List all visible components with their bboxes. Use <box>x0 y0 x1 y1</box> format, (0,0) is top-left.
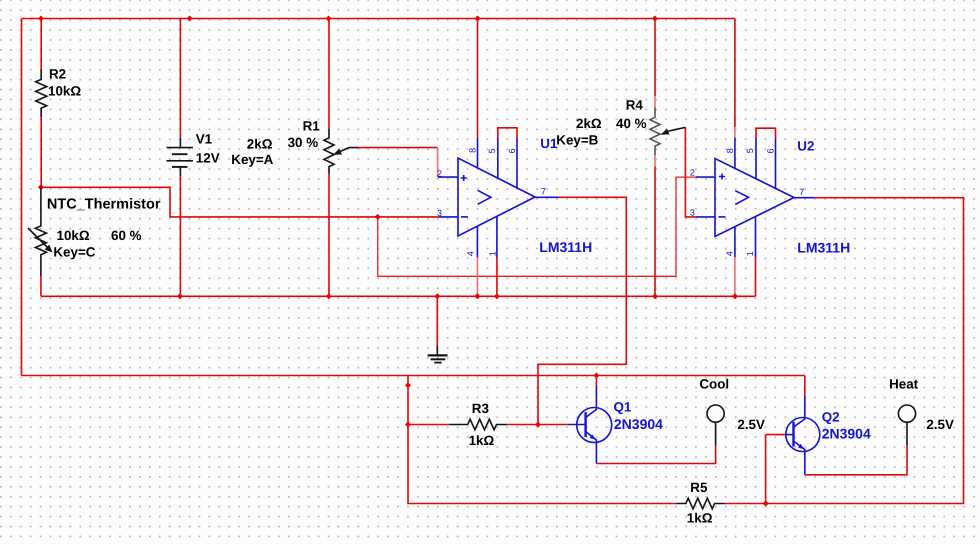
wire U2 output right rail down to R5 <box>725 198 964 504</box>
op-amp U1 comparator <box>438 138 558 258</box>
wire R4 bottom <box>654 167 656 297</box>
potentiometer R4 wiper arrow <box>667 127 685 131</box>
svg-text:5: 5 <box>745 148 755 153</box>
svg-text:LM311H: LM311H <box>539 239 592 255</box>
svg-text:R4: R4 <box>626 98 644 113</box>
wire thermistor bottom <box>40 276 42 296</box>
svg-text:10kΩ: 10kΩ <box>48 83 81 98</box>
wire U1 pin1 to bus <box>496 257 498 296</box>
op-amp U2 comparator <box>696 138 815 257</box>
svg-text:Q1: Q1 <box>614 400 632 415</box>
wire U1 pin4 to bus <box>476 257 478 296</box>
transistor Q2 <box>785 396 820 475</box>
pin stub R4 top <box>654 96 656 108</box>
junction left branch upper <box>405 382 411 388</box>
svg-text:10kΩ: 10kΩ <box>57 228 90 243</box>
svg-text:LM311H: LM311H <box>797 239 850 255</box>
svg-text:2N3904: 2N3904 <box>822 426 871 442</box>
junction node A branch <box>375 214 381 220</box>
svg-text:2kΩ: 2kΩ <box>576 116 602 131</box>
junction rail-R1 <box>326 16 332 22</box>
potentiometer R1 <box>324 128 334 173</box>
wire Q2 emitter to Heat probe <box>805 446 907 475</box>
thermistor RT NTC <box>35 188 46 277</box>
wire U2 pin5-6 bridge <box>756 128 776 138</box>
svg-text:60 %: 60 % <box>111 228 142 243</box>
svg-text:30 %: 30 % <box>288 135 319 150</box>
wire R4 wiper to U2 pin3 <box>685 127 695 217</box>
svg-text:Key=B: Key=B <box>556 133 598 148</box>
svg-text:6: 6 <box>507 148 517 153</box>
pin stub U2 pin8 <box>734 127 736 138</box>
wire R1 top <box>328 19 330 129</box>
junction rail-R4 <box>652 16 658 22</box>
wire Q2 base down to R5 <box>765 435 767 504</box>
svg-text:U1: U1 <box>540 136 558 151</box>
junction Q1 collector <box>593 373 599 379</box>
svg-text:Key=C: Key=C <box>53 245 95 260</box>
svg-text:R2: R2 <box>49 67 66 82</box>
wire ground stub <box>436 296 438 346</box>
wire Q2 collector stub <box>804 376 806 397</box>
wire R4 top <box>654 19 656 97</box>
svg-text:Heat: Heat <box>889 377 919 392</box>
svg-text:40 %: 40 % <box>616 116 647 131</box>
junction bus-U2pin4 <box>732 293 738 299</box>
svg-text:1kΩ: 1kΩ <box>469 433 495 448</box>
wire ground bus <box>41 295 756 297</box>
wire Q1 collector stub <box>595 376 597 387</box>
svg-text:2: 2 <box>690 168 695 178</box>
svg-text:2.5V: 2.5V <box>926 417 954 432</box>
wire R2 top <box>40 19 42 70</box>
svg-text:3: 3 <box>690 208 695 218</box>
wire R1 bottom <box>328 174 330 297</box>
svg-text:Key=A: Key=A <box>231 152 273 167</box>
probe Heat <box>898 405 915 446</box>
svg-text:4: 4 <box>466 251 476 256</box>
wire node A branch to U2 pin2 <box>378 177 696 276</box>
svg-text:4: 4 <box>724 251 734 256</box>
junction left branch R3 <box>405 422 411 428</box>
svg-text:U2: U2 <box>797 139 814 154</box>
svg-text:2kΩ: 2kΩ <box>247 136 273 151</box>
svg-text:Q2: Q2 <box>822 410 840 425</box>
junction rail-R2 <box>38 16 44 22</box>
wire Q2 base horizontal <box>766 434 785 436</box>
wire U1 output to Q1 base net <box>538 197 626 424</box>
wire R1 wiper to U1 pin2 <box>359 147 438 149</box>
junction bus-V1 <box>177 293 183 299</box>
wire mid horizontal rail <box>22 375 805 377</box>
junction bus-U1pin1 <box>494 293 500 299</box>
svg-text:2.5V: 2.5V <box>737 417 765 432</box>
svg-text:8: 8 <box>725 148 735 153</box>
junction rail-U1pin8 <box>475 16 481 22</box>
svg-text:7: 7 <box>541 187 546 197</box>
svg-text:5: 5 <box>487 148 497 153</box>
pin stub R4 bottom <box>654 155 656 166</box>
svg-text:1: 1 <box>745 251 755 256</box>
wire R3 left <box>408 424 449 426</box>
ground <box>428 346 448 363</box>
svg-text:8: 8 <box>467 148 477 153</box>
svg-text:Cool: Cool <box>699 377 729 392</box>
junction Q2base-R5 <box>763 501 769 507</box>
junction bus-R1 <box>326 293 332 299</box>
svg-text:2: 2 <box>437 168 442 178</box>
wire U2 pin8 to rail <box>734 19 736 128</box>
junction bus-ground <box>434 293 440 299</box>
wire R2 bottom to node A <box>40 117 42 187</box>
wire U1 pin8 to rail <box>477 19 479 138</box>
transistor Q1 <box>568 386 612 464</box>
wire node A to U1 pin3 <box>41 187 439 217</box>
wire U2 pin1 to bus <box>755 257 757 296</box>
wire U1 pin5-6 bridge <box>498 128 517 138</box>
svg-text:6: 6 <box>765 148 775 153</box>
svg-text:V1: V1 <box>196 131 213 146</box>
junction node A <box>38 184 44 190</box>
svg-text:NTC_Thermistor: NTC_Thermistor <box>47 197 161 213</box>
wire U2 pin4 to bus <box>734 257 736 296</box>
wire V1 top <box>179 19 181 139</box>
probe Cool <box>707 405 724 446</box>
svg-text:R3: R3 <box>472 401 489 416</box>
svg-text:2N3904: 2N3904 <box>614 416 663 432</box>
svg-text:R1: R1 <box>303 119 321 134</box>
svg-text:7: 7 <box>799 187 804 197</box>
potentiometer R4 <box>650 108 660 156</box>
battery V1 <box>167 138 194 176</box>
wire R3 right to Q1 base <box>507 424 568 426</box>
junction U1out-R3 net <box>535 422 541 428</box>
junction bus-U1pin4 <box>474 293 480 299</box>
wire V1 bottom <box>179 176 181 296</box>
wire left rail vertical <box>21 19 23 376</box>
wire Q1 emitter to Cool probe <box>596 446 715 464</box>
resistor R5 <box>676 498 725 509</box>
svg-text:12V: 12V <box>196 151 220 166</box>
svg-text:1: 1 <box>488 251 498 256</box>
junction rail-V1 <box>187 16 193 22</box>
svg-text:R5: R5 <box>690 480 708 495</box>
thermistor arrow <box>28 228 48 248</box>
junction bus-R4 <box>652 293 658 299</box>
resistor R3 <box>449 419 507 430</box>
wire top power rail <box>22 18 735 20</box>
svg-text:3: 3 <box>437 208 442 218</box>
wire R1 wiper vertical stub <box>437 148 439 178</box>
resistor R2 <box>36 70 47 118</box>
svg-text:1kΩ: 1kΩ <box>687 510 713 525</box>
potentiometer R1 wiper arrow <box>340 148 359 152</box>
wire left branch vertical to R5 <box>408 376 676 504</box>
